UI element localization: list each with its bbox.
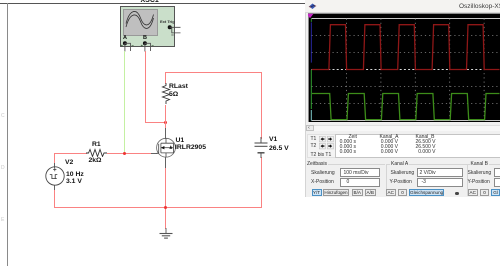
label RLast — [169, 83, 188, 90]
value 26.5 V — [269, 145, 289, 152]
value 2kΩ — [89, 157, 102, 164]
schematic sheet top border — [0, 3, 305, 4]
wire V1 top down — [261, 72, 262, 139]
Kanal B Y-Position — [468, 180, 490, 185]
graticule top line — [312, 17, 500, 19]
cursor line green segment — [310, 70, 312, 109]
trace channel A green — [312, 93, 500, 119]
label R1 — [92, 141, 101, 148]
sheet frame row marks — [1, 113, 5, 118]
XSC1 ext trig terminal — [164, 23, 186, 37]
resistor RLast — [161, 83, 171, 106]
wire V2 bottom down — [54, 185, 55, 190]
Kanal B buttons — [468, 189, 479, 196]
Kanal B Skalierung — [468, 171, 492, 176]
Zeitbasis Skalierung — [311, 171, 335, 176]
value 3.1 V — [66, 178, 82, 185]
source V2 — [44, 165, 66, 187]
V2 top pin — [54, 163, 55, 168]
cursor T1 marker triangle — [307, 13, 314, 17]
window title bar — [305, 0, 500, 13]
graticule center white dashed line — [312, 68, 500, 70]
ground — [158, 228, 174, 240]
junction drain/B — [164, 121, 167, 124]
schematic sheet left border — [7, 3, 8, 266]
value 5Ω — [169, 91, 178, 98]
cursor line cyan segment — [310, 110, 312, 121]
radio dot — [455, 192, 459, 196]
wire drain column RLast bottom to mosfet — [165, 105, 166, 128]
XSC1 A terminal — [123, 35, 127, 42]
wire V2 top up — [54, 153, 55, 163]
readout white box — [335, 134, 500, 158]
groupbox grooves — [305, 164, 385, 165]
transistor U1 MOSFET — [155, 137, 177, 159]
wire green A down to gate net — [124, 51, 125, 153]
readout values — [320, 140, 356, 145]
junction gate/green — [123, 152, 126, 155]
window icon — [308, 3, 317, 10]
XSC1 Ext Trig label — [160, 19, 175, 24]
value 10 Hz — [66, 171, 84, 178]
Kanal A Skalierung — [391, 171, 415, 176]
junction bottom rail — [164, 206, 167, 209]
wire gate net horizontal — [54, 153, 87, 154]
window title — [459, 3, 500, 10]
Kanal A buttons — [386, 189, 397, 196]
resistor R1 — [86, 148, 108, 157]
label V2 — [65, 159, 73, 166]
source V1 battery — [252, 137, 272, 159]
wire source column down — [165, 157, 166, 168]
cursor tick green top — [310, 18, 312, 21]
Zeitbasis X-Position — [311, 180, 334, 185]
value IRLR2905 — [175, 144, 206, 151]
wire red B to drain column — [145, 122, 166, 123]
readout T1 row — [311, 137, 317, 142]
group labels — [306, 162, 328, 167]
wire top rail to V1 — [165, 72, 262, 73]
readout T2 row — [311, 144, 317, 149]
readout left subpanel — [307, 134, 336, 158]
cursor line blue segment — [310, 22, 312, 62]
XSC1 B terminal — [143, 35, 147, 42]
bottom rail wire — [54, 207, 261, 208]
scope scrollbar — [306, 125, 500, 132]
gate pin — [151, 153, 157, 154]
label XSC1 — [141, 0, 159, 4]
oscilloscope symbol XSC1 — [120, 6, 175, 47]
graticule vertical dashed lines — [346, 18, 348, 120]
readout T2-T1 row — [311, 153, 332, 158]
label V1 — [269, 136, 277, 143]
Kanal A Y-Position — [390, 180, 412, 185]
readout headers — [349, 135, 357, 140]
graticule horizontal dashed lines — [312, 34, 500, 36]
wire red B down — [145, 51, 146, 123]
wire RLast top up — [165, 72, 166, 84]
scope display — [308, 13, 500, 123]
drain pin — [165, 128, 166, 138]
XSC1 sine waves — [123, 9, 156, 34]
trace channel B red — [312, 24, 500, 69]
wire V1 bottom down — [261, 157, 262, 208]
Zeitbasis buttons — [312, 189, 322, 196]
wire gate net right of R1 — [107, 153, 151, 154]
graticule bottom line — [312, 119, 500, 121]
label U1 — [176, 137, 185, 144]
XSC1 screen — [123, 9, 158, 36]
